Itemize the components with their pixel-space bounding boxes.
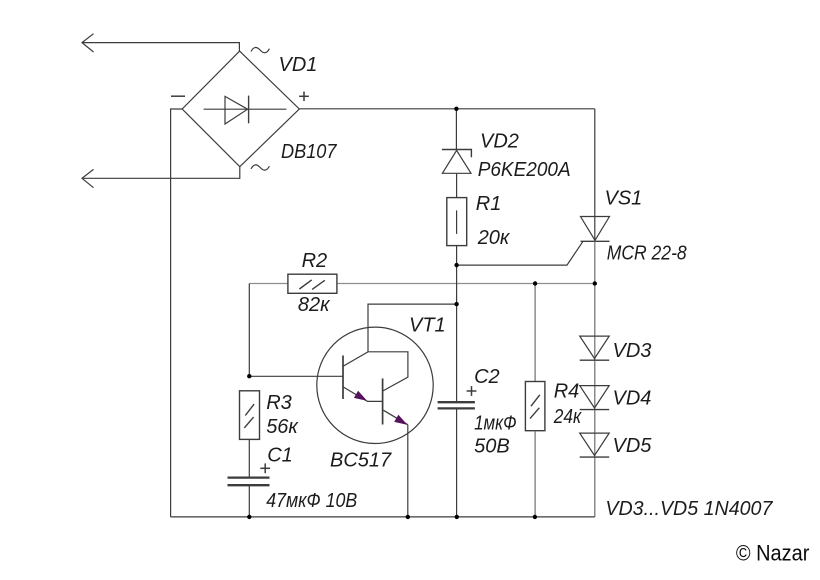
junction bottom rail / C2 — [455, 515, 459, 519]
wire top rail bridge plus to VS1 — [299, 108, 595, 110]
junction R1 / gate node — [454, 263, 458, 267]
svg-text:MCR 22-8: MCR 22-8 — [607, 242, 687, 264]
bridge internal diode — [204, 96, 287, 124]
wire VD2 top lead — [455, 109, 457, 150]
svg-text:© Nazar: © Nazar — [736, 541, 810, 566]
svg-text:47мкФ 10В: 47мкФ 10В — [266, 490, 357, 512]
plus sign C2 — [467, 386, 477, 396]
wire R2 rail gray right — [337, 283, 595, 285]
svg-text:1мкФ: 1мкФ — [474, 412, 517, 434]
wire VD2 to R1 — [456, 173, 458, 197]
wire R4 bottom lead — [534, 431, 536, 517]
svg-text:R2: R2 — [302, 250, 328, 272]
svg-text:VD1: VD1 — [279, 54, 318, 76]
junction rail / VS1 — [593, 281, 597, 285]
junction bottom rail / C1 — [247, 515, 251, 519]
wire base lead to VT1 — [249, 375, 343, 377]
svg-text:R4: R4 — [554, 381, 580, 403]
plus sign C1 — [260, 463, 270, 473]
resistor R2 — [288, 274, 337, 293]
AC mark top — [251, 47, 269, 52]
svg-text:56к: 56к — [266, 416, 299, 438]
svg-text:24к: 24к — [553, 406, 583, 428]
plus terminal of VD1 — [299, 92, 309, 102]
svg-text:C2: C2 — [474, 366, 500, 388]
svg-text:BC517: BC517 — [330, 449, 392, 471]
wire right rail VS1 cathode to bottom — [594, 241, 596, 517]
svg-text:VD4: VD4 — [613, 387, 652, 409]
junction base node — [247, 374, 251, 378]
thyristor VS1 — [581, 217, 610, 242]
svg-text:VD3...VD5 1N4007: VD3...VD5 1N4007 — [605, 498, 773, 520]
transistor VT1 — [317, 327, 433, 443]
AC mark bottom — [251, 165, 269, 170]
wire AC input bottom — [82, 167, 240, 179]
VT1 emitter arrow Q2 — [394, 415, 407, 425]
svg-text:R1: R1 — [476, 193, 502, 215]
junction collector / C2 node — [454, 302, 458, 306]
AC input arrow bottom — [82, 169, 94, 187]
wire VS1 anode rail — [594, 109, 596, 242]
svg-text:50В: 50В — [474, 435, 510, 457]
diode VD3 — [580, 336, 610, 360]
svg-text:20к: 20к — [477, 227, 511, 249]
wire bottom rail — [171, 516, 595, 518]
AC input arrow top — [82, 34, 94, 52]
wire R4 top lead — [534, 284, 536, 382]
svg-text:DB107: DB107 — [281, 141, 337, 163]
resistor R3 — [240, 391, 260, 440]
wire R3 to C1 — [248, 439, 250, 476]
VT1 emitter arrow Q1 — [354, 391, 367, 401]
wire R2 rail gray left — [249, 283, 288, 285]
wire C2 to bottom rail — [456, 410, 458, 517]
svg-text:VS1: VS1 — [605, 187, 643, 209]
resistor R1 — [447, 198, 467, 246]
wire VT1 collector to C2 node — [368, 304, 457, 352]
junction bottom rail / VT1 emitter — [406, 515, 410, 519]
capacitor C2 — [438, 402, 475, 408]
svg-text:82к: 82к — [298, 294, 331, 316]
wire AC input top — [82, 43, 239, 52]
svg-text:P6KE200A: P6KE200A — [478, 159, 571, 181]
svg-text:VD5: VD5 — [613, 435, 653, 457]
wire R2 to base node — [248, 284, 250, 377]
junction rail / R4 top — [533, 281, 537, 285]
wire VS1 gate — [457, 241, 583, 265]
wire R1 node down to C2 — [456, 265, 458, 401]
svg-text:R3: R3 — [266, 392, 292, 414]
svg-text:C1: C1 — [267, 444, 293, 466]
capacitor C1 — [228, 478, 270, 486]
svg-text:VD2: VD2 — [480, 131, 519, 153]
resistor R4 — [525, 382, 545, 431]
minus terminal of VD1 — [171, 95, 185, 97]
junction bottom rail / R4 — [533, 515, 537, 519]
wire C1 to bottom rail — [248, 486, 250, 517]
svg-text:VT1: VT1 — [409, 314, 446, 336]
diode VD4 — [580, 386, 610, 410]
wire R1 to gate node — [456, 246, 458, 266]
junction top rail / VD2 — [454, 107, 458, 111]
diode VD5 — [580, 433, 610, 457]
zener diode VD2 — [442, 150, 472, 174]
bridge rectifier VD1 diamond — [182, 51, 299, 167]
svg-text:VD3: VD3 — [613, 340, 652, 362]
wire left rail from bridge minus — [171, 109, 183, 517]
wire VT1 emitter to bottom rail — [407, 425, 409, 517]
